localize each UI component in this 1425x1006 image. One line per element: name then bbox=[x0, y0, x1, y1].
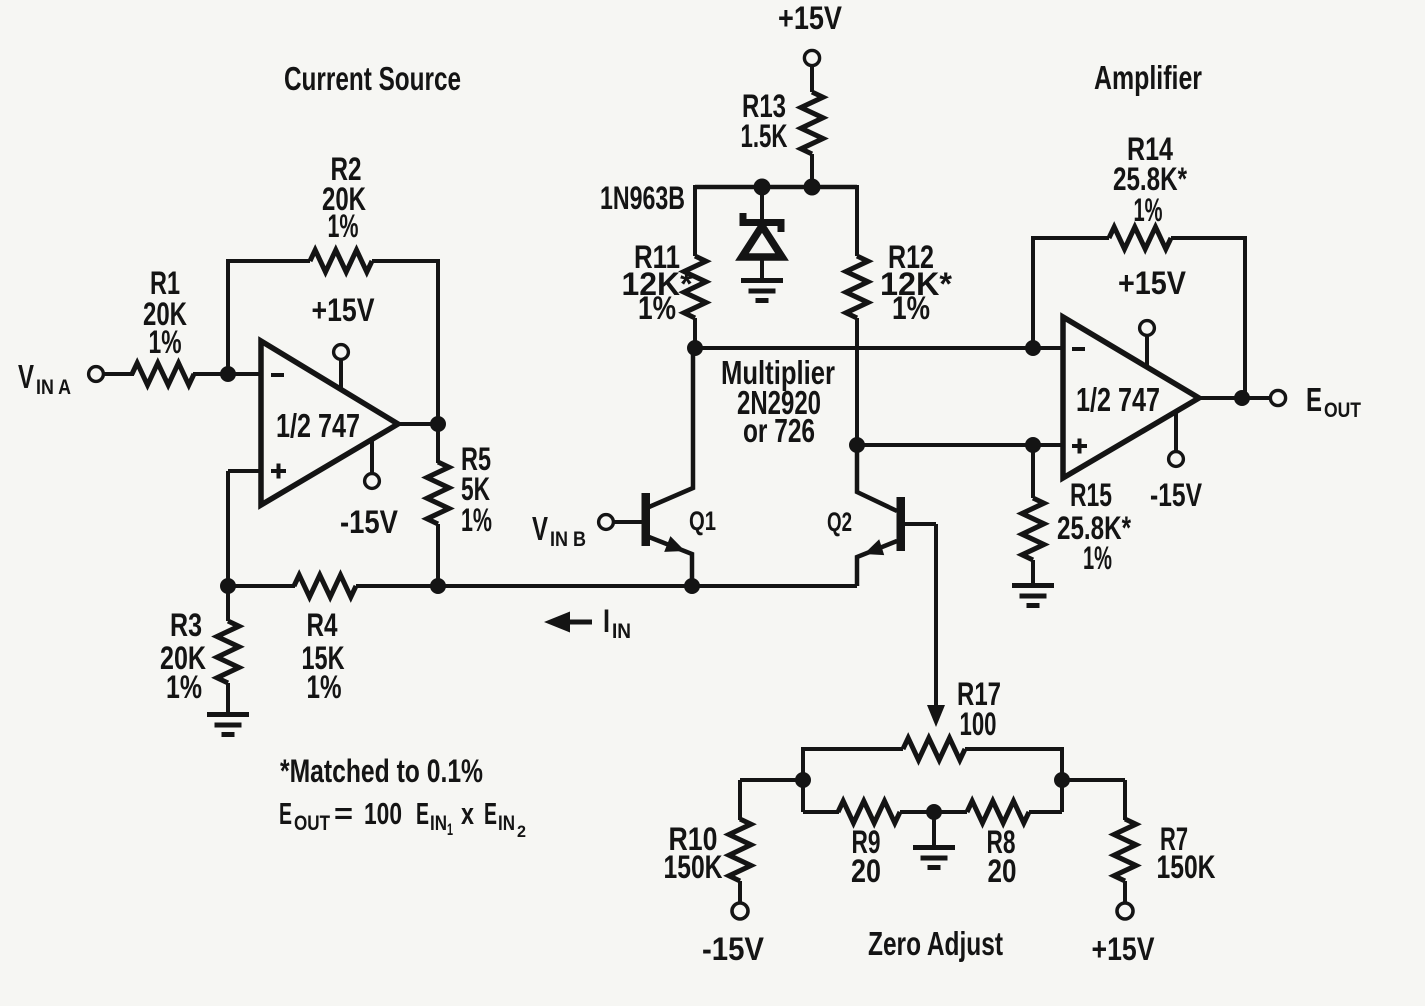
resistor R11 bbox=[684, 256, 706, 318]
svg-text:OUT: OUT bbox=[294, 812, 330, 835]
transistor Q1 collector bbox=[649, 348, 693, 507]
junction node A (R11/Q1 collector) bbox=[688, 341, 703, 356]
junction pot left node bbox=[796, 773, 811, 788]
wire right vertical R2 to output bbox=[436, 259, 440, 424]
svg-text:1%: 1% bbox=[149, 324, 182, 360]
svg-text:-15V: -15V bbox=[340, 504, 399, 540]
junction rail left node bbox=[221, 579, 236, 594]
junction U2 output node bbox=[1235, 391, 1250, 406]
svg-text:100: 100 bbox=[960, 706, 997, 742]
wire R13 to bus bbox=[810, 154, 814, 187]
resistor R5 bbox=[427, 462, 449, 524]
svg-text:1%: 1% bbox=[166, 669, 202, 705]
svg-text:Q2: Q2 bbox=[827, 507, 852, 537]
wire R14 top right bbox=[1171, 236, 1245, 240]
zener diode D1 1N963B cathode bar bbox=[743, 213, 781, 232]
resistor R13 bbox=[801, 92, 823, 154]
svg-text:1: 1 bbox=[447, 820, 453, 839]
svg-text:Amplifier: Amplifier bbox=[1094, 59, 1202, 96]
resistor R10 bbox=[729, 819, 751, 881]
junction zener top node bbox=[754, 179, 770, 195]
wire zener to ground bbox=[760, 256, 764, 280]
label R4 value bbox=[302, 607, 345, 705]
svg-text:20: 20 bbox=[851, 853, 881, 889]
svg-text:x: x bbox=[461, 796, 475, 831]
note equation EOUT bbox=[279, 796, 526, 841]
label R3 value bbox=[160, 607, 206, 705]
svg-text:IN A: IN A bbox=[36, 376, 71, 399]
op-amp U1 plus sign bbox=[271, 464, 286, 479]
wire feedback vertical left U2 bbox=[1031, 238, 1035, 348]
label R2 value bbox=[322, 151, 366, 244]
op-amp U1 negative supply pin bbox=[365, 439, 380, 488]
svg-text:20: 20 bbox=[988, 853, 1017, 889]
op-amp U1 positive supply pin bbox=[334, 345, 349, 389]
transistor Q1 emitter bbox=[649, 537, 692, 586]
terminal +15V top bbox=[804, 50, 819, 65]
svg-text:IN B: IN B bbox=[550, 528, 586, 551]
node EOUT label bbox=[1306, 381, 1361, 422]
svg-text:or 726: or 726 bbox=[743, 412, 815, 449]
wire R15 to ground bbox=[1031, 560, 1035, 585]
wire R14 top left bbox=[1031, 236, 1109, 240]
label R7 value bbox=[1157, 821, 1216, 885]
resistor R15 bbox=[1022, 498, 1044, 560]
svg-text:+15V: +15V bbox=[1118, 265, 1187, 301]
transistor Q1 base bar bbox=[642, 493, 651, 546]
junction R15 top node bbox=[1026, 438, 1041, 453]
zener diode D1 anode triangle bbox=[742, 226, 782, 257]
svg-text:Zero Adjust: Zero Adjust bbox=[868, 925, 1003, 962]
svg-text:150K: 150K bbox=[664, 849, 723, 885]
wire Q2 base lead bbox=[905, 522, 936, 526]
junction pot right node bbox=[1055, 773, 1070, 788]
junction U1 output node bbox=[431, 417, 446, 432]
wire rail middle segment bbox=[356, 584, 440, 588]
transistor Q2 emitter bbox=[857, 541, 897, 586]
svg-text:-15V: -15V bbox=[702, 931, 765, 967]
ground zener bbox=[741, 281, 783, 301]
svg-text:100: 100 bbox=[364, 796, 402, 831]
wire feedback vertical left bbox=[226, 261, 230, 372]
wire U1 plus input bbox=[228, 469, 262, 473]
junction R13 bottom node bbox=[804, 179, 820, 195]
junction U1 inverting input node bbox=[221, 367, 236, 382]
wire +15V to R13 bbox=[810, 65, 814, 92]
wire R7 top bbox=[1123, 780, 1127, 820]
svg-text:+15V: +15V bbox=[312, 292, 376, 328]
terminal VIN B bbox=[599, 515, 614, 530]
wire R1 to U1 inverting input bbox=[193, 372, 262, 376]
label R5 value bbox=[461, 441, 492, 538]
wire VIN A to R1 bbox=[103, 372, 134, 376]
label R13 value bbox=[741, 88, 788, 154]
op-amp U2 plus sign bbox=[1072, 439, 1087, 454]
svg-text:1/2 747: 1/2 747 bbox=[1076, 381, 1160, 418]
wire bus to R12 bbox=[855, 185, 859, 256]
label IIN bbox=[603, 603, 631, 643]
junction node B (R12/Q2 collector) bbox=[850, 438, 865, 453]
label multiplier bbox=[721, 354, 835, 449]
label R10 value bbox=[664, 821, 723, 885]
label R1 value bbox=[143, 265, 187, 360]
resistor R3 bbox=[217, 621, 239, 683]
wire pot top left bbox=[803, 747, 903, 751]
op-amp U2 negative supply pin bbox=[1169, 411, 1184, 466]
wire bus to R11 bbox=[693, 185, 697, 256]
node VIN B label bbox=[532, 510, 586, 551]
transistor Q2 emitter arrow bbox=[864, 539, 884, 555]
wire R9 to center bbox=[900, 810, 967, 814]
potentiometer R17 element bbox=[903, 738, 965, 760]
wire R5 to rail bbox=[436, 524, 440, 586]
wire node A to U2 inverting input bbox=[695, 346, 1063, 350]
op-amp U1 minus sign bbox=[271, 373, 284, 377]
op-amp U2 body bbox=[1063, 317, 1199, 478]
wire left vertical to rail bbox=[226, 471, 230, 588]
svg-text:1/2 747: 1/2 747 bbox=[276, 407, 360, 444]
terminal EOUT bbox=[1270, 390, 1285, 405]
wire VIN B to Q1 base bbox=[613, 520, 643, 524]
arrow IIN bbox=[544, 612, 592, 633]
resistor R7 bbox=[1114, 819, 1136, 881]
svg-text:1N963B: 1N963B bbox=[600, 180, 685, 216]
pot R17 wiper arrow bbox=[927, 705, 945, 727]
svg-text:1%: 1% bbox=[1083, 540, 1112, 576]
resistor R8 bbox=[967, 801, 1029, 823]
wire feedback vertical right U2 bbox=[1243, 236, 1247, 399]
wire pot left vertical bbox=[801, 747, 805, 812]
label R9 value bbox=[851, 824, 881, 889]
svg-text:=: = bbox=[334, 798, 353, 830]
svg-text:1.5K: 1.5K bbox=[741, 118, 788, 154]
svg-text:IN: IN bbox=[430, 812, 447, 835]
wire pot right to R7 bbox=[1060, 778, 1125, 782]
wire R11 to node A bbox=[693, 318, 697, 348]
wire R7 bottom bbox=[1123, 881, 1127, 903]
wire R12 to node B bbox=[855, 318, 859, 445]
wire pot right vertical bbox=[1060, 747, 1064, 812]
svg-text:V: V bbox=[18, 358, 34, 395]
wire pot top right bbox=[965, 747, 1062, 751]
label R14 value bbox=[1113, 131, 1187, 228]
ground R3 bbox=[207, 715, 249, 735]
svg-text:+15V: +15V bbox=[778, 0, 843, 36]
wire rail to Q2 emitter bbox=[692, 584, 857, 588]
resistor R9 bbox=[838, 801, 900, 823]
node VIN A label bbox=[18, 358, 71, 399]
wire pot bottom right segment bbox=[1029, 810, 1062, 814]
resistor R12 bbox=[846, 256, 868, 318]
svg-text:E: E bbox=[1306, 381, 1322, 418]
svg-text:V: V bbox=[532, 510, 548, 547]
transistor Q2 base bar bbox=[897, 497, 906, 551]
transistor Q2 collector bbox=[857, 445, 897, 511]
op-amp U1 body bbox=[261, 341, 398, 505]
terminal VIN A bbox=[89, 367, 104, 382]
label R15 value bbox=[1057, 477, 1131, 576]
wire zener top bbox=[760, 187, 764, 222]
wire R10 top bbox=[738, 780, 742, 820]
svg-text:*Matched to 0.1%: *Matched to 0.1% bbox=[280, 753, 483, 789]
svg-text:-15V: -15V bbox=[1150, 477, 1203, 513]
label R12 value bbox=[880, 239, 953, 326]
wire U2 output bbox=[1199, 396, 1271, 400]
svg-text:E: E bbox=[416, 796, 429, 831]
wire rail left segment bbox=[228, 584, 295, 588]
svg-text:150K: 150K bbox=[1157, 849, 1216, 885]
wire R2 top right segment bbox=[372, 259, 438, 263]
svg-text:Current Source: Current Source bbox=[284, 60, 461, 97]
wire node to R15 bbox=[1031, 445, 1035, 498]
svg-text:IN: IN bbox=[612, 620, 631, 643]
svg-text:1%: 1% bbox=[638, 290, 676, 326]
svg-text:Q1: Q1 bbox=[689, 506, 716, 536]
label R11 value bbox=[622, 239, 694, 326]
label R17 value bbox=[957, 676, 1001, 742]
wire R2 top left segment bbox=[226, 259, 310, 263]
junction zero adjust center node bbox=[927, 805, 942, 820]
svg-text:IN: IN bbox=[498, 812, 515, 835]
svg-text:+15V: +15V bbox=[1092, 931, 1156, 967]
label R8 value bbox=[987, 824, 1017, 889]
resistor R2 bbox=[310, 250, 372, 272]
svg-text:R4: R4 bbox=[307, 607, 338, 643]
svg-text:1%: 1% bbox=[328, 208, 359, 244]
wire output to R5 bbox=[436, 424, 440, 463]
svg-text:2: 2 bbox=[517, 822, 526, 841]
svg-text:E: E bbox=[279, 796, 292, 831]
wire Q2 base to wiper bbox=[934, 524, 938, 708]
wire U1 output bbox=[398, 422, 440, 426]
svg-text:1%: 1% bbox=[461, 502, 492, 538]
svg-text:1%: 1% bbox=[1134, 192, 1163, 228]
wire rail to Q1 emitter bbox=[438, 584, 693, 588]
wire pot left to R10 bbox=[740, 778, 805, 782]
wire node B to U2 non-inverting input bbox=[857, 443, 1063, 447]
wire R3 top bbox=[226, 586, 230, 621]
ground zero adjust bbox=[913, 848, 955, 868]
resistor R1 bbox=[132, 363, 194, 385]
wire center to ground bbox=[932, 812, 936, 847]
op-amp U2 positive supply pin bbox=[1140, 321, 1155, 367]
resistor R14 bbox=[1109, 227, 1171, 249]
transistor Q1 emitter arrow bbox=[664, 536, 685, 552]
svg-text:OUT: OUT bbox=[1324, 399, 1361, 422]
svg-text:1%: 1% bbox=[892, 290, 930, 326]
svg-text:R15: R15 bbox=[1070, 477, 1112, 513]
resistor R4 bbox=[294, 575, 356, 597]
svg-text:E: E bbox=[484, 796, 497, 831]
svg-text:I: I bbox=[603, 603, 610, 639]
svg-text:R3: R3 bbox=[170, 607, 202, 643]
wire pot bottom left segment bbox=[803, 810, 839, 814]
terminal +15V bottom bbox=[1117, 903, 1133, 919]
wire R10 bottom bbox=[738, 881, 742, 903]
ground R15 bbox=[1012, 586, 1054, 606]
junction U2 inverting input node bbox=[1026, 341, 1041, 356]
junction rail Q1 emitter node bbox=[685, 579, 700, 594]
junction rail R5 node bbox=[431, 579, 446, 594]
wire bias bus bbox=[695, 185, 857, 190]
terminal -15V bottom bbox=[732, 903, 748, 919]
op-amp U2 minus sign bbox=[1072, 347, 1085, 351]
wire R3 bottom bbox=[226, 683, 230, 714]
svg-text:1%: 1% bbox=[307, 669, 342, 705]
